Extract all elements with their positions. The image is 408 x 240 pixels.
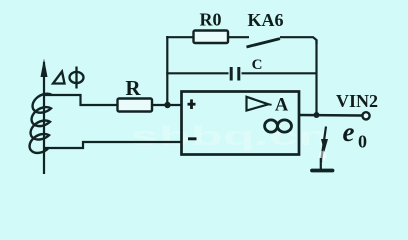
inductor L1 core axis with up arrow <box>43 62 45 174</box>
infinity symbol <box>265 120 292 132</box>
svg-text:R: R <box>125 76 141 100</box>
svg-text:0: 0 <box>358 132 367 152</box>
terminal VIN2 circle <box>362 112 369 119</box>
wire: e0 drop to ground <box>321 127 326 163</box>
arrowhead on e0 wire <box>321 139 328 152</box>
inductor L1 winding <box>30 94 52 153</box>
wire: switch to right vertical <box>280 37 317 44</box>
ground bar <box>312 169 333 173</box>
op-amp gain triangle <box>247 97 269 111</box>
watermark blob over wire <box>319 151 327 161</box>
wire: coil bottom terminal to op-amp - input <box>44 142 182 148</box>
junction node after R <box>164 102 170 108</box>
op-amp + input sign <box>188 99 196 109</box>
op-amp U1 box <box>182 92 300 155</box>
wire: C loop left segment <box>166 72 228 74</box>
switch KA6 blade <box>247 39 281 47</box>
junction node at output <box>314 112 320 118</box>
ground stub <box>320 158 322 170</box>
op-amp - input sign <box>188 137 197 140</box>
arrowhead of core axis <box>41 59 48 78</box>
resistor R <box>118 99 153 112</box>
svg-text:e: e <box>343 117 355 147</box>
svg-text:R0: R0 <box>200 9 222 29</box>
label delta-phi <box>53 67 84 89</box>
wire: left vertical of feedback loops <box>166 36 168 105</box>
svg-text:VIN2: VIN2 <box>336 91 378 111</box>
wire: right vertical of feedback loops <box>315 40 317 115</box>
capacitor C plates <box>230 67 233 81</box>
resistor R0 <box>194 31 229 44</box>
wire: R to op-amp + input <box>152 104 182 106</box>
wire: coil top terminal to R <box>44 95 118 105</box>
wire: top loop left segment to R0 <box>166 36 193 38</box>
wire: R0 to switch <box>228 36 249 38</box>
svg-text:C: C <box>252 57 263 73</box>
wire: C loop right segment <box>242 72 317 74</box>
wire: op-amp output <box>299 114 362 117</box>
svg-text:A: A <box>275 95 289 115</box>
svg-text:KA6: KA6 <box>248 10 284 30</box>
